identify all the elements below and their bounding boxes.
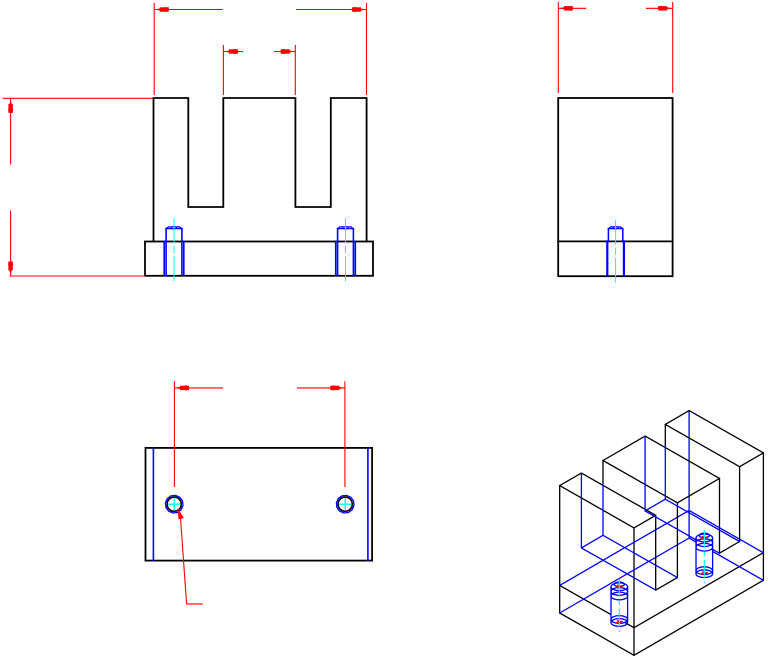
iso tooth3 back-left vertical visible part bbox=[664, 424, 666, 446]
iso tooth2 top back edge bbox=[603, 436, 645, 460]
side view pin centerline bbox=[615, 220, 617, 284]
bottom view left pin circle bbox=[167, 497, 181, 511]
bottom view hole leader line bbox=[180, 515, 202, 604]
iso slot2 bottom back hidden edge bbox=[645, 499, 665, 511]
bottom view hole spacing dimension bbox=[173, 381, 175, 487]
iso base top right hidden edge bbox=[689, 510, 763, 552]
side view body outline bbox=[558, 98, 672, 276]
iso base bottom right hidden edge bbox=[689, 538, 763, 580]
iso slot2 bottom right hidden edge bbox=[665, 499, 739, 541]
bottom view right hole hidden circle bbox=[336, 495, 354, 513]
iso front-left corner vertical bbox=[633, 528, 635, 655]
iso tooth3 back-left vertical hidden part bbox=[664, 447, 666, 500]
iso tooth1 top back edge bbox=[560, 473, 582, 486]
iso back-right corner vertical hidden bbox=[688, 411, 690, 538]
iso tooth2 top left edge bbox=[603, 461, 677, 503]
iso tooth3 top back edge bbox=[665, 411, 689, 425]
front view base plate bbox=[145, 242, 373, 276]
iso base bottom front edge bbox=[634, 580, 763, 655]
iso slot1 front-right vertical bbox=[676, 503, 678, 578]
iso slot1 back-left vertical hidden bbox=[580, 473, 582, 548]
iso tooth1 top right edge bbox=[581, 473, 655, 515]
side view depth dimension bbox=[557, 2, 559, 93]
front view right pin hidden outline bbox=[335, 242, 337, 276]
iso slot1 bottom front edge bbox=[656, 578, 678, 591]
iso tooth3 top right edge bbox=[689, 411, 763, 453]
bottom view right hole center mark bbox=[340, 503, 351, 505]
iso slot2 front-right vertical bbox=[739, 467, 741, 542]
iso back-left corner vertical bbox=[559, 486, 561, 613]
iso slot2 bottom front edge bbox=[720, 542, 740, 554]
iso base bottom back hidden edge bbox=[560, 538, 689, 613]
iso tooth1 top front edge bbox=[634, 515, 656, 528]
iso right pin top center mark bbox=[701, 536, 708, 539]
bottom view left hole hidden circle bbox=[165, 495, 183, 513]
iso slot1 front-left vertical bbox=[655, 515, 657, 590]
front view overall width dimension bbox=[153, 3, 155, 95]
front view overall height dimension bbox=[3, 97, 153, 99]
iso base top front edge bbox=[634, 553, 763, 628]
iso slot2 front-left vertical bbox=[719, 478, 721, 553]
iso slot1 bottom left hidden edge bbox=[581, 548, 655, 590]
iso base top back hidden edge bbox=[560, 510, 689, 585]
iso tooth2 back-left vertical hidden part bbox=[602, 483, 604, 535]
bottom view comb left wall hidden edge bbox=[152, 448, 154, 561]
front view left pin hidden outline bbox=[163, 242, 165, 276]
front view middle tooth width dimension bbox=[222, 45, 224, 95]
bottom view base outline bbox=[146, 448, 373, 561]
iso slot2 back-left vertical hidden bbox=[644, 436, 646, 511]
bottom view hole leader arrowhead bbox=[178, 508, 184, 520]
iso tooth2 top front edge bbox=[677, 478, 719, 502]
iso tooth2 top right edge bbox=[645, 436, 719, 478]
iso tooth3 top left edge bbox=[665, 424, 739, 466]
side view pin hidden outline bbox=[606, 241, 608, 275]
iso base top left edge bbox=[560, 585, 634, 627]
iso slot2 bottom left hidden edge bbox=[645, 511, 719, 553]
bottom view comb right wall hidden edge bbox=[367, 448, 369, 561]
iso right pin cylinder bbox=[696, 533, 713, 577]
iso left pin bottom center mark bbox=[616, 620, 623, 623]
iso tooth3 top front edge bbox=[740, 453, 764, 467]
iso slot1 bottom back hidden edge bbox=[581, 535, 603, 548]
iso right pin axis centerline bbox=[703, 530, 705, 583]
side view base top edge bbox=[558, 240, 672, 242]
iso left pin top center mark bbox=[616, 585, 623, 588]
front view comb part outline bbox=[154, 98, 367, 242]
iso tooth1 top left edge bbox=[560, 486, 634, 528]
iso front-right corner vertical bbox=[762, 453, 764, 580]
front view right pin centerline bbox=[345, 219, 347, 284]
iso left pin cylinder bbox=[611, 582, 628, 626]
iso base bottom left edge bbox=[560, 613, 634, 655]
iso slot1 bottom right hidden edge bbox=[603, 535, 677, 577]
bottom view left hole center mark bbox=[169, 503, 180, 505]
bottom view right pin circle bbox=[338, 497, 352, 511]
iso tooth2 back-left vertical visible part bbox=[602, 461, 604, 484]
front view left pin centerline bbox=[173, 219, 175, 284]
iso left pin axis centerline bbox=[618, 579, 620, 632]
iso right pin bottom center mark bbox=[701, 572, 708, 575]
